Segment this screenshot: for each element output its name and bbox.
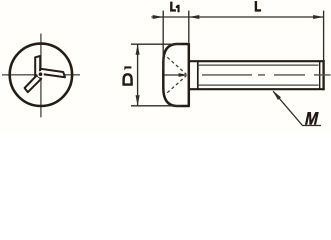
L dimension line [189, 16, 324, 18]
D1 dimension line [137, 44, 139, 106]
L left arrow [189, 15, 200, 19]
shank centerline dash-dot [202, 74, 331, 76]
head centerline (side view) [162, 74, 180, 76]
L right arrow [313, 15, 324, 19]
L1 arrow (outside, pointing right) [153, 15, 164, 19]
recess center dot [39, 72, 43, 76]
thread minor diameter top line [198, 64, 319, 66]
centerline vertical (front view) [40, 34, 42, 118]
head outline circle (front view) [10, 44, 72, 106]
pan head outline (side view) [163, 44, 189, 106]
tri-wing recess: slot lower-left [25, 75, 42, 92]
label L1 [170, 2, 176, 12]
M leader arrow [272, 90, 281, 100]
thread start vertical line [197, 60, 199, 90]
label D1 (rotated 90 CCW) [122, 73, 132, 86]
L1/L shared extension line [188, 11, 190, 43]
D1 top arrow [136, 44, 140, 55]
shank bottom line [189, 88, 325, 90]
shank top line [189, 60, 325, 62]
M leader line [273, 91, 321, 125]
recess center white pocket [37, 71, 44, 78]
thread minor diameter bottom line [198, 84, 319, 86]
screw end chamfer line [319, 62, 321, 90]
D1 extension line bottom [131, 105, 181, 107]
label L [255, 1, 261, 12]
D1 bottom arrow [136, 95, 140, 106]
D1 extension line top [131, 43, 181, 45]
label M (italic) [305, 112, 319, 125]
L1 extension line left [162, 11, 164, 71]
tri-wing recess: slot up [35, 56, 40, 79]
tri-wing recess: slot right [40, 69, 65, 78]
L extension line right (over screw end) [323, 11, 325, 60]
hidden recess line lower (dashed) [167, 76, 186, 93]
screw end face line [322, 60, 324, 90]
L1 dimension line with outside stub [151, 16, 189, 18]
head centerline arrowhead [179, 73, 189, 77]
centerline horizontal (front view) [2, 74, 80, 76]
hidden recess line upper (dashed) [167, 57, 186, 74]
